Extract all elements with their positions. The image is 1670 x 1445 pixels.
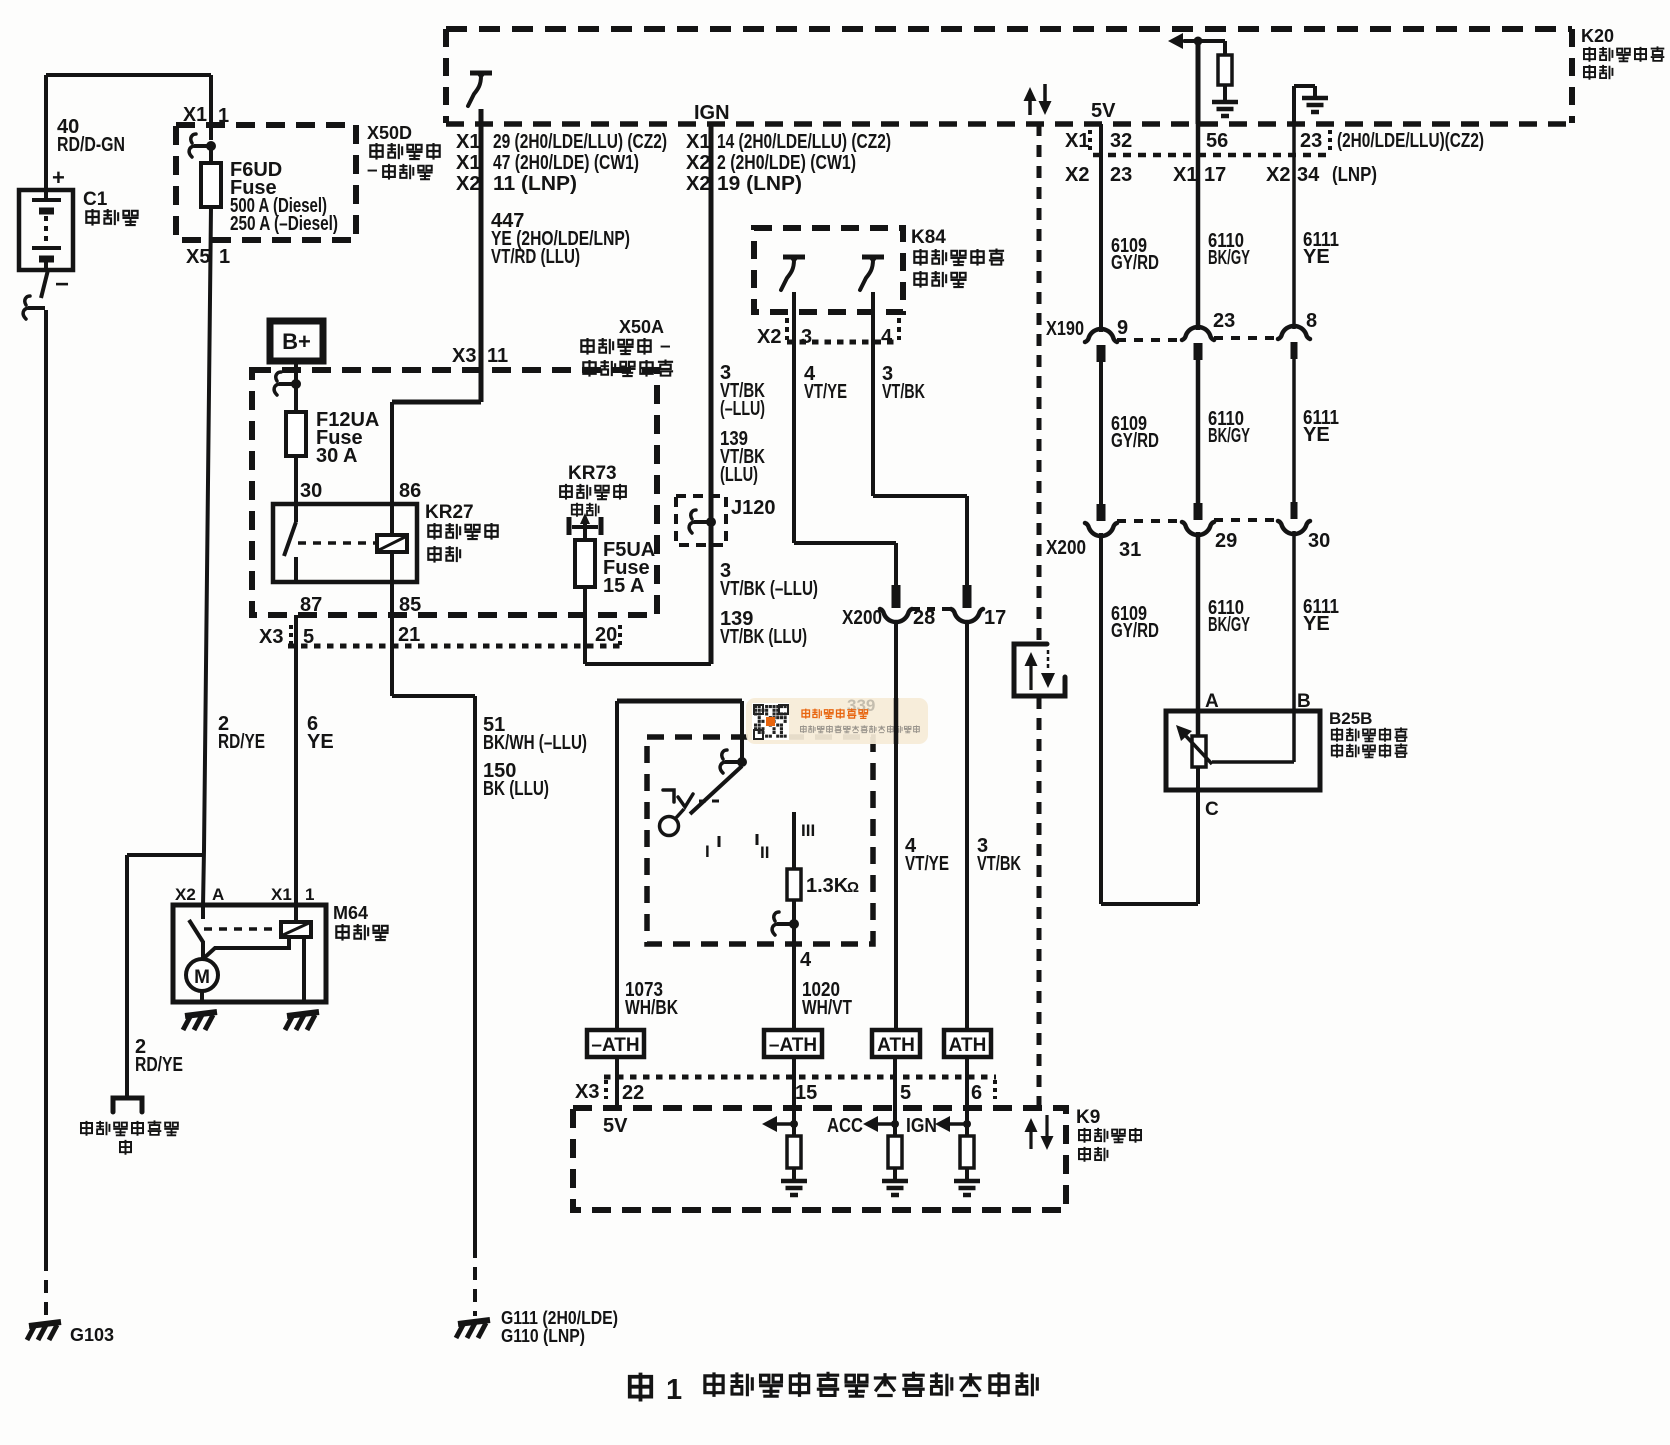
svg-text:IGN: IGN (694, 102, 730, 124)
svg-text:X2: X2 (456, 173, 480, 195)
svg-text:VT/YE: VT/YE (804, 381, 847, 403)
svg-text:86: 86 (399, 480, 421, 502)
svg-text:−: − (55, 271, 69, 298)
svg-text:X2: X2 (1266, 164, 1290, 186)
svg-text:BK/GY: BK/GY (1208, 247, 1250, 269)
svg-text:30: 30 (1308, 530, 1330, 552)
svg-text:X1: X1 (686, 131, 710, 153)
svg-text:VT/BK (–LLU): VT/BK (–LLU) (720, 578, 818, 600)
svg-text:BK/WH (–LLU): BK/WH (–LLU) (483, 732, 587, 754)
svg-text:–: – (367, 160, 378, 181)
svg-text:21: 21 (398, 624, 420, 646)
svg-text:X200: X200 (1046, 537, 1086, 559)
svg-text:6: 6 (971, 1082, 982, 1104)
svg-text:–ATH: –ATH (591, 1035, 639, 1056)
svg-text:15 A: 15 A (603, 575, 645, 597)
svg-text:5: 5 (303, 626, 314, 648)
svg-text:X3: X3 (259, 626, 283, 648)
svg-text:X1: X1 (271, 885, 292, 904)
svg-text:YE: YE (307, 731, 334, 753)
svg-text:KR27: KR27 (425, 502, 474, 523)
svg-text:YE: YE (1303, 613, 1330, 635)
svg-text:BK/GY: BK/GY (1208, 425, 1250, 447)
svg-text:RD/YE: RD/YE (135, 1054, 183, 1076)
svg-text:1: 1 (666, 1374, 682, 1406)
svg-text:1.3K: 1.3K (806, 875, 849, 897)
svg-text:5V: 5V (1091, 100, 1116, 122)
svg-text:85: 85 (399, 594, 421, 616)
svg-text:WH/VT: WH/VT (802, 997, 852, 1019)
svg-text:ATH: ATH (949, 1035, 987, 1056)
svg-text:X2: X2 (175, 885, 196, 904)
svg-text:8: 8 (1306, 310, 1317, 332)
svg-text:28: 28 (913, 607, 935, 629)
svg-text:K20: K20 (1581, 26, 1614, 46)
svg-text:19 (LNP): 19 (LNP) (717, 173, 802, 195)
svg-text:BK/GY: BK/GY (1208, 614, 1250, 636)
svg-text:(LLU): (LLU) (720, 464, 758, 486)
svg-text:II: II (760, 843, 769, 862)
svg-text:32: 32 (1110, 130, 1132, 152)
svg-text:23: 23 (1110, 164, 1132, 186)
svg-text:VT/RD (LLU): VT/RD (LLU) (491, 246, 580, 268)
svg-text:GY/RD: GY/RD (1111, 430, 1159, 452)
svg-text:VT/BK: VT/BK (977, 853, 1021, 875)
svg-text:87: 87 (300, 594, 322, 616)
svg-text:17: 17 (984, 607, 1006, 629)
svg-text:31: 31 (1119, 539, 1141, 561)
svg-text:1: 1 (219, 246, 230, 268)
svg-text:M64: M64 (333, 903, 368, 923)
svg-text:B+: B+ (282, 329, 311, 354)
svg-text:X1: X1 (456, 131, 480, 153)
svg-text:Ω: Ω (847, 879, 859, 896)
svg-text:–: – (660, 336, 671, 357)
svg-text:5: 5 (900, 1082, 911, 1104)
svg-text:5V: 5V (603, 1115, 628, 1137)
svg-text:23: 23 (1300, 130, 1322, 152)
svg-text:X2: X2 (686, 152, 710, 174)
svg-text:X3: X3 (452, 345, 476, 367)
svg-text:WH/BK: WH/BK (625, 997, 678, 1019)
svg-text:X2: X2 (1065, 164, 1089, 186)
svg-text:J120: J120 (731, 497, 776, 519)
svg-text:VT/BK: VT/BK (882, 381, 925, 403)
svg-text:2 (2H0/LDE) (CW1): 2 (2H0/LDE) (CW1) (717, 152, 856, 174)
svg-text:14 (2H0/LDE/LLU) (CZ2): 14 (2H0/LDE/LLU) (CZ2) (717, 131, 891, 153)
svg-text:C: C (1205, 799, 1219, 820)
svg-text:56: 56 (1206, 130, 1228, 152)
svg-text:29: 29 (1215, 530, 1237, 552)
svg-text:K9: K9 (1076, 1107, 1100, 1128)
svg-text:34: 34 (1297, 164, 1320, 186)
svg-text:(2H0/LDE/LLU)(CZ2): (2H0/LDE/LLU)(CZ2) (1337, 130, 1484, 152)
svg-text:29 (2H0/LDE/LLU) (CZ2): 29 (2H0/LDE/LLU) (CZ2) (493, 131, 667, 153)
svg-text:X190: X190 (1046, 318, 1084, 340)
svg-text:11: 11 (487, 345, 508, 367)
svg-text:GY/RD: GY/RD (1111, 252, 1159, 274)
svg-text:X2: X2 (757, 326, 781, 348)
svg-text:RD/YE: RD/YE (218, 731, 265, 753)
svg-text:X200: X200 (842, 607, 882, 629)
svg-text:X50D: X50D (367, 123, 412, 143)
svg-text:G103: G103 (70, 1325, 114, 1345)
svg-text:X5: X5 (186, 246, 210, 268)
svg-text:X1: X1 (1173, 164, 1197, 186)
svg-text:X50A: X50A (619, 317, 664, 337)
svg-text:M: M (194, 967, 210, 988)
svg-text:C1: C1 (83, 189, 108, 210)
svg-text:X1: X1 (456, 152, 480, 174)
svg-text:X2: X2 (686, 173, 710, 195)
svg-text:(–LLU): (–LLU) (720, 398, 765, 420)
svg-text:17: 17 (1204, 164, 1226, 186)
svg-text:ATH: ATH (877, 1035, 915, 1056)
svg-text:ACC: ACC (827, 1115, 863, 1137)
svg-text:KR73: KR73 (568, 463, 617, 484)
svg-text:+: + (52, 165, 65, 190)
svg-text:K84: K84 (911, 227, 946, 248)
svg-text:30 A: 30 A (316, 445, 358, 467)
svg-text:47 (2H0/LDE) (CW1): 47 (2H0/LDE) (CW1) (493, 152, 639, 174)
svg-text:3: 3 (801, 326, 812, 348)
svg-text:11 (LNP): 11 (LNP) (493, 173, 577, 195)
svg-text:(LNP): (LNP) (1332, 164, 1377, 186)
svg-text:YE: YE (1303, 424, 1330, 446)
svg-text:RD/D-GN: RD/D-GN (57, 134, 125, 156)
svg-text:BK (LLU): BK (LLU) (483, 778, 549, 800)
svg-text:B25B: B25B (1329, 709, 1372, 728)
svg-text:20: 20 (595, 624, 617, 646)
svg-text:4: 4 (800, 949, 812, 971)
svg-text:9: 9 (1117, 317, 1128, 339)
svg-text:III: III (801, 821, 815, 840)
svg-text:X3: X3 (575, 1081, 599, 1103)
svg-text:–ATH: –ATH (769, 1035, 817, 1056)
svg-text:4: 4 (881, 326, 893, 348)
svg-text:VT/BK (LLU): VT/BK (LLU) (720, 626, 807, 648)
svg-text:GY/RD: GY/RD (1111, 620, 1159, 642)
svg-text:23: 23 (1213, 310, 1235, 332)
svg-text:YE: YE (1303, 246, 1330, 268)
svg-text:G110 (LNP): G110 (LNP) (501, 1326, 585, 1346)
svg-text:G111 (2H0/LDE): G111 (2H0/LDE) (501, 1308, 618, 1328)
svg-text:X1: X1 (1065, 130, 1089, 152)
svg-text:1: 1 (305, 885, 314, 904)
svg-text:VT/YE: VT/YE (905, 853, 949, 875)
svg-text:15: 15 (795, 1082, 817, 1104)
svg-text:IGN: IGN (906, 1115, 937, 1137)
svg-text:30: 30 (300, 480, 322, 502)
svg-text:22: 22 (622, 1082, 644, 1104)
svg-text:I: I (705, 842, 710, 861)
svg-text:250 A (–Diesel): 250 A (–Diesel) (230, 213, 338, 235)
svg-text:A: A (212, 885, 224, 904)
